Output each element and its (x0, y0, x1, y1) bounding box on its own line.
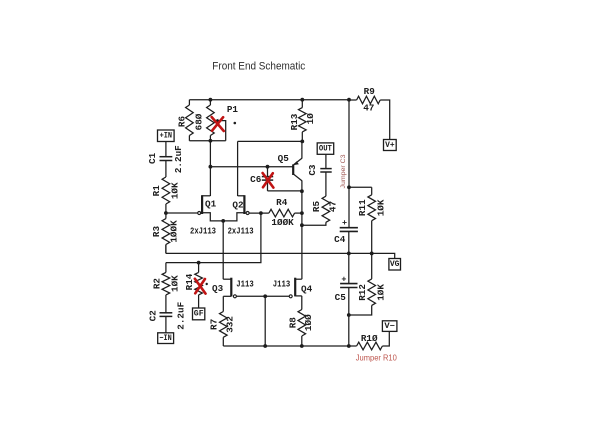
junction R5 link (300, 223, 304, 227)
svg-text:V−: V− (384, 322, 395, 331)
svg-text:1Ø: 1Ø (305, 113, 316, 125)
transistor Q3 (223, 278, 231, 280)
svg-text:R4: R4 (276, 197, 288, 208)
resistor R5 (322, 196, 330, 222)
svg-text:332: 332 (224, 316, 235, 333)
gate bubble Q2 (246, 212, 249, 215)
svg-text:J113: J113 (236, 278, 254, 289)
junction R1/R3/Q1 gate (164, 211, 168, 215)
resistor R4 (269, 209, 295, 217)
wire V+ column (348, 100, 350, 228)
transistor Q1 (201, 195, 203, 214)
wire V+ top rail (189, 99, 349, 101)
capacitor C2 (160, 312, 173, 314)
svg-text:1ØK: 1ØK (375, 199, 386, 216)
svg-text:P1: P1 (227, 104, 239, 115)
svg-text:1ØK: 1ØK (375, 284, 386, 301)
svg-text:R14: R14 (184, 273, 195, 290)
svg-text:R5: R5 (311, 201, 322, 213)
wire P1 to node A (209, 141, 211, 196)
svg-text:2xJ113: 2xJ113 (190, 226, 216, 237)
svg-text:C3: C3 (307, 164, 318, 176)
svg-text:+: + (342, 218, 347, 228)
resistor R8 (301, 296, 303, 310)
junction feedback tap (259, 211, 263, 215)
svg-text:47: 47 (328, 201, 339, 212)
wire gate to rail (264, 296, 266, 346)
svg-text:Q2: Q2 (232, 199, 244, 210)
resistor R13 (301, 100, 303, 108)
junction C6 top (266, 165, 270, 169)
red X over R14 (195, 279, 206, 294)
svg-text:C1: C1 (147, 152, 158, 164)
resistor R9 (349, 99, 357, 101)
wire feedback drop (166, 213, 261, 263)
junction C5/R12 bottom (347, 313, 351, 317)
wire +IN to C1 (165, 142, 167, 157)
svg-text:R11: R11 (357, 199, 368, 216)
wire Q5 collector (301, 181, 303, 192)
potentiometer P1 (209, 100, 211, 105)
svg-text:1ØK: 1ØK (169, 182, 180, 199)
junction P1 top (209, 98, 213, 102)
junction C4 bottom (347, 252, 351, 256)
svg-text:Jumper R10: Jumper R10 (356, 353, 397, 362)
svg-text:OUT: OUT (319, 144, 332, 153)
resistor R3 (165, 213, 167, 219)
svg-text:J113: J113 (273, 278, 291, 289)
svg-text:R12: R12 (357, 284, 368, 301)
terminal +IN (158, 130, 175, 142)
capacitor C1 (160, 156, 173, 158)
terminal GF (193, 308, 205, 320)
svg-text:R2: R2 (151, 278, 162, 290)
svg-text:R3: R3 (151, 226, 162, 238)
svg-text:GF: GF (194, 310, 204, 319)
svg-text:R13: R13 (289, 113, 300, 130)
terminal OUT (317, 143, 334, 154)
wire to R11 top (349, 186, 372, 188)
resistor R14 (198, 263, 200, 273)
svg-text:1ØØK: 1ØØK (168, 220, 179, 243)
svg-text:Front End Schematic: Front End Schematic (212, 61, 306, 73)
svg-text:R8: R8 (287, 317, 298, 329)
svg-text:Jumper C3: Jumper C3 (340, 154, 347, 188)
terminal V- (382, 321, 397, 332)
svg-text:1ØØ: 1ØØ (303, 314, 314, 331)
junction R8 bottom (300, 344, 304, 348)
svg-text:R1Ø: R1Ø (361, 333, 378, 344)
pin marker P1 (234, 122, 237, 125)
svg-text:68Ø: 68Ø (194, 113, 205, 130)
svg-text:C5: C5 (335, 292, 347, 303)
wire R3 bottom corner (165, 245, 167, 254)
wire C6 bottom (268, 190, 302, 192)
svg-text:−IN: −IN (159, 334, 172, 343)
svg-text:R1: R1 (151, 185, 162, 197)
wire tail column (222, 221, 224, 279)
wire Q3/Q4 gates (237, 295, 290, 297)
svg-text:2xJ113: 2xJ113 (228, 226, 254, 237)
wire Q2 gate to R4 (249, 212, 269, 214)
pin marker R14 (206, 283, 208, 285)
wire bottom rail (223, 345, 356, 347)
resistor R7 (222, 296, 224, 311)
svg-text:R9: R9 (364, 86, 376, 97)
svg-text:Q1: Q1 (205, 199, 217, 210)
transistor Q5 (292, 164, 294, 175)
wire node A to Q5 base (210, 166, 293, 168)
wire Q2 drain riser (237, 141, 239, 196)
svg-text:1ØK: 1ØK (170, 275, 181, 292)
svg-text:C6: C6 (250, 174, 262, 185)
resistor R2 (165, 263, 167, 273)
capacitor C6 (267, 167, 269, 177)
resistor R1 (162, 177, 170, 204)
capacitor C4 (340, 227, 358, 229)
terminal V+ (384, 140, 397, 151)
capacitor C5 (340, 283, 357, 285)
svg-text:R6: R6 (177, 116, 188, 128)
junction R4 right (300, 211, 304, 215)
junction P1 bottom (209, 139, 213, 143)
svg-text:2.2uF: 2.2uF (173, 145, 184, 173)
junction gate divider bottom (263, 344, 267, 348)
wire Q2 drain to R13 bottom (238, 140, 303, 142)
gate bubble Q1 (198, 212, 201, 215)
junction tail (221, 219, 225, 223)
svg-text:+IN: +IN (160, 132, 173, 141)
wire Q5 emitter (301, 141, 303, 158)
junction R11 tap (347, 185, 351, 189)
junction C5 bottom rail (347, 344, 351, 348)
junction R13 bottom (300, 140, 304, 144)
junction R13 top (300, 98, 304, 102)
junction node A (209, 165, 213, 169)
wire VG rail (166, 253, 395, 258)
wire Q1 gate (166, 212, 198, 214)
transistor Q2 (243, 195, 245, 214)
svg-text:VG: VG (390, 260, 400, 269)
resistor R11 (371, 187, 373, 195)
svg-text:R7: R7 (209, 319, 220, 330)
junction Q5 collector / C6 (300, 189, 304, 193)
junction gate divider (263, 294, 267, 298)
gate bubble Q4 (289, 295, 292, 298)
terminal VG (389, 259, 401, 271)
junction R14 top (197, 261, 201, 265)
svg-text:Q3: Q3 (212, 283, 224, 294)
terminal -IN (158, 333, 174, 344)
svg-text:2.2uF: 2.2uF (176, 301, 187, 329)
wire R6/P1 bottom (189, 140, 225, 142)
svg-text:+: + (341, 274, 346, 284)
svg-text:Q4: Q4 (301, 283, 313, 294)
wire OUT to C3 (325, 155, 327, 169)
capacitor C3 (320, 168, 331, 170)
resistor R6 (188, 100, 190, 105)
svg-text:V+: V+ (385, 141, 395, 150)
svg-text:1ØØK: 1ØØK (271, 217, 294, 228)
svg-text:C2: C2 (148, 310, 159, 322)
svg-text:C4: C4 (334, 234, 346, 245)
junction R11 bottom (370, 252, 374, 256)
red X over P1 (212, 117, 224, 131)
resistor R12 (371, 253, 373, 279)
junction top rail / V+ column (347, 98, 351, 102)
red X over C6 (263, 173, 274, 188)
resistor R10 (357, 342, 383, 350)
svg-text:Q5: Q5 (278, 153, 290, 164)
wire Q5 collector column (301, 191, 303, 279)
gate bubble Q3 (233, 295, 236, 298)
transistor Q4 (295, 278, 302, 280)
svg-text:47: 47 (363, 102, 374, 113)
